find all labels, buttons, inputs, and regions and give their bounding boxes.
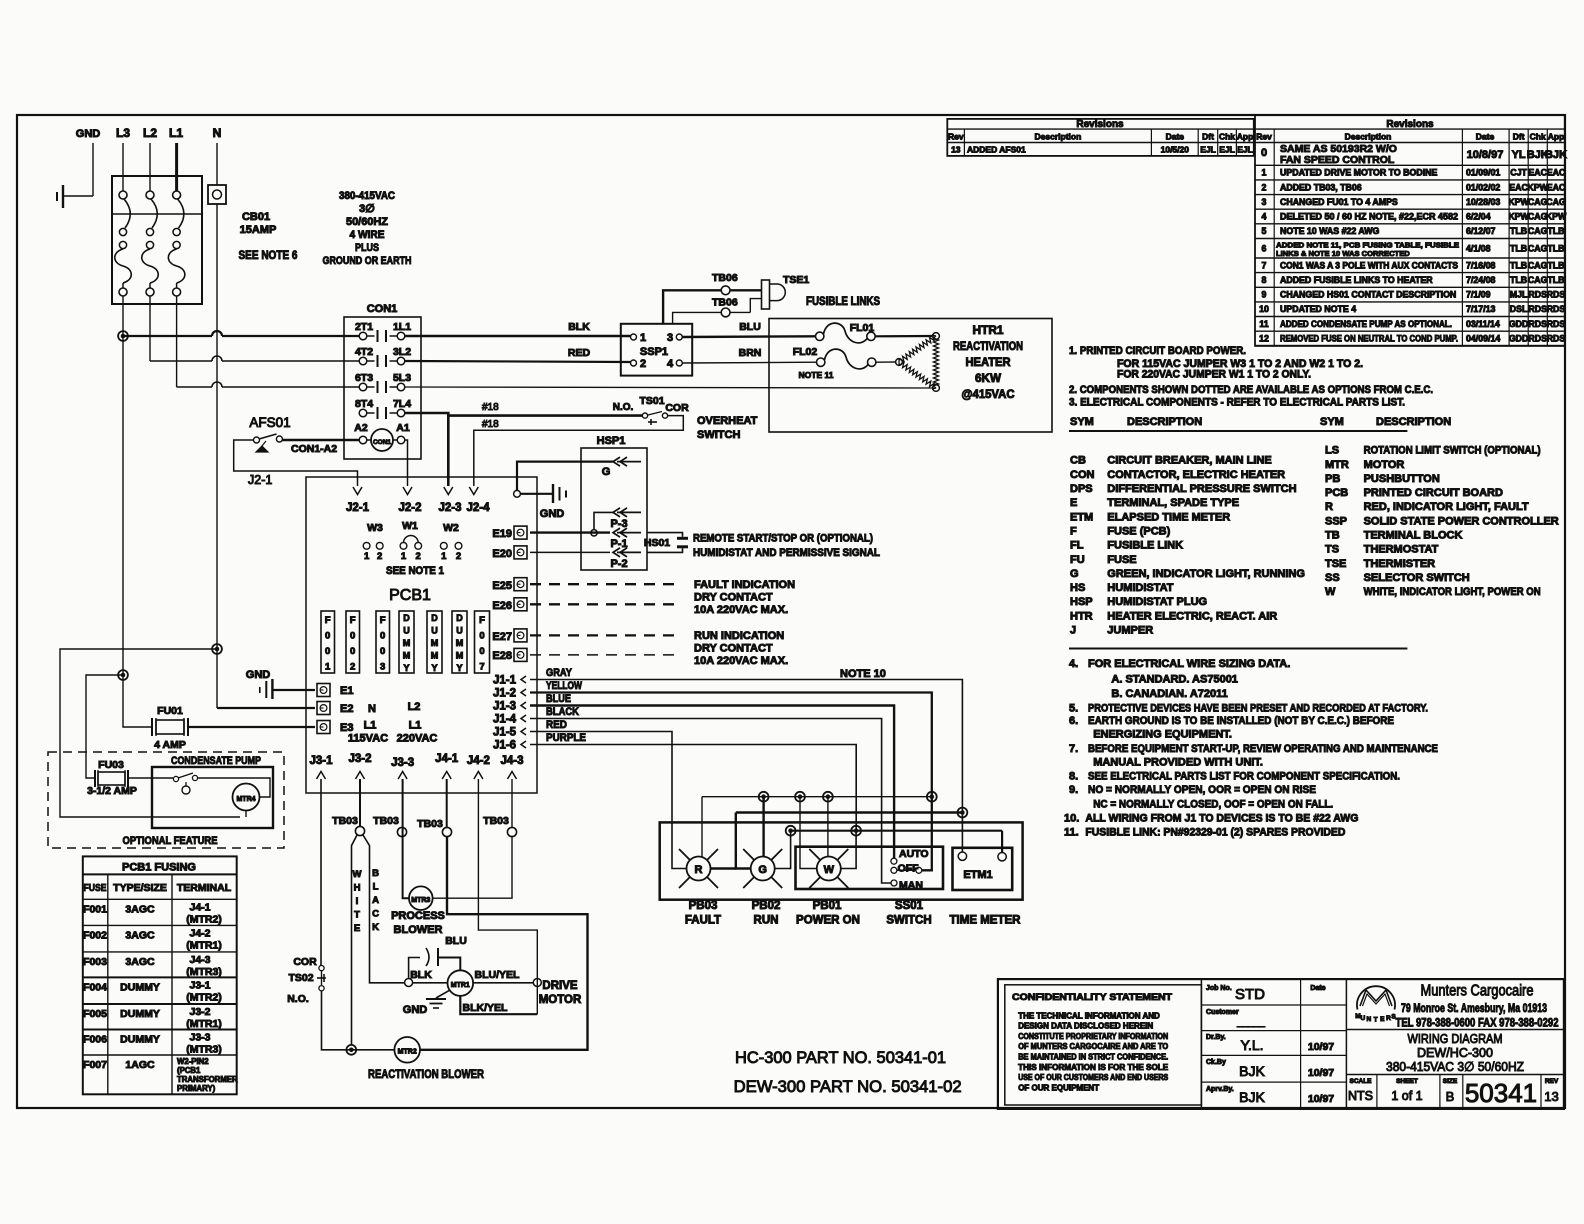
svg-text:DEW/HC-300: DEW/HC-300 — [1417, 1045, 1493, 1060]
svg-text:CONFIDENTIALITY STATEMENT: CONFIDENTIALITY STATEMENT — [1012, 992, 1172, 1003]
svg-text:ETM1: ETM1 — [963, 869, 992, 881]
svg-text:0: 0 — [479, 646, 484, 657]
svg-text:YELLOW: YELLOW — [546, 680, 582, 692]
wire L2 — [149, 143, 151, 191]
svg-text:ADDED CONDENSATE PUMP AS OPTIO: ADDED CONDENSATE PUMP AS OPTIONAL. — [1280, 319, 1452, 329]
svg-text:4: 4 — [1262, 212, 1267, 222]
wire bus to G left — [736, 813, 751, 869]
svg-text:TS: TS — [1325, 544, 1339, 556]
svg-text:KPW: KPW — [1546, 212, 1567, 222]
svg-text:PB01: PB01 — [813, 900, 842, 912]
svg-text:4: 4 — [667, 358, 674, 370]
svg-text:FUSIBLE LINK: PN#92329-01 (2): FUSIBLE LINK: PN#92329-01 (2) SPARES PRO… — [1085, 826, 1345, 838]
svg-text:J1-2: J1-2 — [493, 688, 516, 700]
svg-text:RDS: RDS — [1528, 304, 1547, 314]
svg-text:10/97: 10/97 — [1308, 1093, 1334, 1105]
svg-text:TSE1: TSE1 — [783, 274, 809, 286]
svg-text:NOTE 10 WAS #22 AWG: NOTE 10 WAS #22 AWG — [1280, 226, 1380, 236]
svg-text:GDD: GDD — [1509, 334, 1529, 344]
wire TB03-3 to J4-1 — [446, 779, 448, 828]
svg-text:PCB: PCB — [1325, 487, 1348, 499]
svg-text:F: F — [380, 615, 386, 626]
svg-text:EJL: EJL — [1237, 145, 1253, 155]
junction phase1 — [118, 331, 128, 341]
svg-text:Dr.By.: Dr.By. — [1206, 1034, 1226, 1041]
svg-text:HSP: HSP — [1070, 596, 1093, 608]
svg-text:PRINTED CIRCUIT BOARD: PRINTED CIRCUIT BOARD — [1364, 487, 1503, 499]
svg-text:5L3: 5L3 — [393, 372, 411, 384]
switch AFS01 — [254, 437, 260, 443]
thermostat TS02 — [319, 966, 324, 971]
svg-text:EARTH GROUND IS TO BE INSTALLE: EARTH GROUND IS TO BE INSTALLED (NOT BY … — [1088, 715, 1394, 727]
svg-text:CAG: CAG — [1528, 197, 1548, 207]
wire N — [216, 143, 218, 185]
svg-text:DRIVE: DRIVE — [542, 980, 577, 992]
svg-text:T: T — [354, 910, 360, 921]
svg-text:FL: FL — [1070, 540, 1084, 552]
svg-text:K: K — [372, 922, 379, 933]
wire neutral to condensate — [60, 649, 240, 817]
wire BLACK — [363, 835, 405, 983]
svg-text:U: U — [1360, 1015, 1365, 1022]
junction yellow bus — [927, 792, 937, 802]
ground symbol at power entry — [56, 192, 58, 201]
svg-text:SWITCH: SWITCH — [697, 429, 740, 441]
terminal E28 — [514, 648, 527, 661]
svg-text:L1: L1 — [409, 720, 422, 732]
wire L1 — [175, 143, 178, 191]
svg-text:KPW: KPW — [1508, 212, 1529, 222]
svg-text:J3-1: J3-1 — [189, 979, 210, 991]
solid state power controller SSP1 — [621, 324, 692, 376]
svg-text:SELECTOR SWITCH: SELECTOR SWITCH — [1364, 572, 1470, 584]
svg-text:J2-4: J2-4 — [466, 502, 490, 514]
svg-text:NOTE 11: NOTE 11 — [799, 370, 834, 380]
connector J3/J4 arrows — [317, 772, 326, 780]
svg-text:ETM: ETM — [1070, 511, 1093, 523]
wire E27 dashed — [530, 634, 680, 636]
svg-text:ELAPSED TIME METER: ELAPSED TIME METER — [1107, 511, 1230, 523]
svg-text:PCB1: PCB1 — [389, 587, 431, 604]
wire AFS01 to J2-1 — [234, 440, 358, 486]
svg-text:CJT: CJT — [1510, 168, 1527, 178]
svg-text:AFS01: AFS01 — [249, 415, 290, 430]
svg-text:1: 1 — [640, 332, 646, 344]
svg-text:3. ELECTRICAL COMPONENTS - REF: 3. ELECTRICAL COMPONENTS - REFER TO ELEC… — [1069, 396, 1405, 408]
wire FL01 to delta — [875, 335, 932, 337]
svg-text:A: A — [372, 895, 379, 906]
svg-text:1: 1 — [1262, 168, 1267, 178]
terminal TB03-2 — [397, 827, 406, 836]
elapsed time meter ETM1 — [953, 848, 1013, 890]
svg-text:W: W — [824, 864, 835, 876]
svg-text:PROCESS: PROCESS — [391, 910, 445, 922]
svg-text:10A 220VAC MAX.: 10A 220VAC MAX. — [694, 655, 788, 667]
svg-text:G: G — [602, 466, 611, 478]
svg-text:J3-2: J3-2 — [348, 753, 371, 765]
svg-text:J2-3: J2-3 — [438, 502, 461, 514]
svg-text:CB: CB — [1070, 455, 1086, 467]
svg-text:D: D — [431, 613, 438, 623]
svg-text:REV: REV — [1545, 1078, 1559, 1085]
terminal TB06 lower — [721, 308, 730, 317]
svg-text:1: 1 — [441, 551, 447, 562]
svg-text:TERMINAL: TERMINAL — [177, 882, 232, 894]
svg-text:D: D — [456, 613, 463, 623]
svg-text:2: 2 — [456, 551, 461, 562]
wire J4-2 to drive motor — [478, 779, 537, 1014]
terminal E1 — [317, 684, 330, 697]
svg-text:4 AMP: 4 AMP — [154, 739, 186, 751]
svg-text:MTR4: MTR4 — [236, 796, 255, 803]
svg-text:115VAC: 115VAC — [348, 733, 388, 745]
svg-text:ADDED TB03, TB06: ADDED TB03, TB06 — [1280, 182, 1362, 192]
svg-text:1 of 1: 1 of 1 — [1391, 1089, 1422, 1103]
wire E28 dashed — [530, 654, 680, 656]
svg-text:F001: F001 — [83, 903, 107, 915]
condensate pump box — [152, 767, 273, 828]
svg-text:2: 2 — [640, 358, 646, 370]
svg-text:TLB: TLB — [1547, 260, 1564, 270]
svg-text:5.: 5. — [1069, 702, 1078, 714]
wire 5L3 to heater delta — [405, 387, 933, 388]
optional feature dashed box — [48, 752, 284, 848]
junction WHITE-MTR2 — [346, 1045, 356, 1055]
svg-text:J1-6: J1-6 — [493, 740, 516, 752]
svg-text:RDS: RDS — [1547, 334, 1566, 344]
svg-text:Revisions: Revisions — [1076, 119, 1124, 130]
svg-text:REACTIVATION BLOWER: REACTIVATION BLOWER — [368, 1067, 484, 1081]
svg-text:RUN: RUN — [754, 915, 779, 927]
svg-text:HEATER ELECTRIC, REACT. AIR: HEATER ELECTRIC, REACT. AIR — [1107, 610, 1277, 622]
svg-text:OFF: OFF — [898, 863, 920, 875]
svg-text:EAC: EAC — [1547, 182, 1566, 192]
junction gray bus — [958, 808, 968, 818]
svg-text:RDS: RDS — [1528, 290, 1547, 300]
svg-text:E20: E20 — [492, 548, 512, 560]
svg-text:DESCRIPTION: DESCRIPTION — [1376, 416, 1451, 428]
svg-text:MOTOR: MOTOR — [539, 994, 582, 1006]
svg-text:PCB1 FUSING: PCB1 FUSING — [122, 862, 196, 874]
svg-text:TB03: TB03 — [417, 818, 443, 830]
fuse F007 — [475, 611, 490, 673]
svg-text:SSP: SSP — [1325, 515, 1347, 527]
svg-text:E: E — [1380, 1016, 1385, 1023]
svg-text:UPDATED DRIVE MOTOR TO BODINE: UPDATED DRIVE MOTOR TO BODINE — [1280, 168, 1438, 178]
title block drawing title — [1346, 1029, 1564, 1031]
svg-text:MTR: MTR — [1325, 459, 1349, 471]
svg-text:GND: GND — [540, 508, 565, 520]
svg-text:J2-1: J2-1 — [346, 502, 370, 514]
svg-text:RDS: RDS — [1547, 319, 1566, 329]
svg-text:REMOTE START/STOP OR (OPTIONAL: REMOTE START/STOP OR (OPTIONAL) — [693, 533, 873, 545]
svg-text:POWER ON: POWER ON — [796, 915, 860, 927]
junction FU01 branch — [118, 670, 128, 680]
svg-text:I: I — [356, 896, 359, 907]
svg-text:BLK/YEL: BLK/YEL — [463, 1002, 509, 1014]
svg-text:GND: GND — [403, 1004, 428, 1016]
svg-text:THE TECHNICAL INFORMATION AND: THE TECHNICAL INFORMATION AND — [1018, 1011, 1160, 1020]
svg-text:F003: F003 — [83, 956, 107, 968]
svg-text:GRAY: GRAY — [546, 667, 573, 679]
svg-text:FU03: FU03 — [98, 759, 124, 771]
svg-text:01/09/01: 01/09/01 — [1466, 168, 1500, 178]
svg-text:9.: 9. — [1069, 784, 1078, 796]
svg-text:#18: #18 — [482, 419, 499, 430]
svg-text:0: 0 — [325, 646, 330, 657]
svg-text:3AGC: 3AGC — [125, 903, 155, 915]
svg-text:FU: FU — [1070, 554, 1085, 566]
svg-text:BJK: BJK — [1545, 149, 1567, 161]
terminal E27 — [514, 629, 527, 642]
svg-text:ALL WIRING FROM J1 TO DEVICES: ALL WIRING FROM J1 TO DEVICES IS TO BE #… — [1085, 813, 1358, 825]
svg-text:M: M — [403, 638, 411, 648]
svg-text:1AGC: 1AGC — [125, 1059, 155, 1071]
svg-text:1: 1 — [325, 662, 331, 673]
svg-text:6/12/07: 6/12/07 — [1466, 226, 1495, 236]
svg-text:CAG: CAG — [1528, 243, 1548, 253]
fuse dummy 3 — [452, 611, 467, 673]
svg-text:10/97: 10/97 — [1308, 1067, 1334, 1079]
svg-text:CONDENSATE PUMP: CONDENSATE PUMP — [171, 755, 261, 767]
wire E20 to P-2 — [530, 551, 610, 553]
wire W lamp left — [800, 797, 817, 869]
svg-text:TLB: TLB — [1547, 226, 1564, 236]
svg-text:TERMINAL, SPADE TYPE: TERMINAL, SPADE TYPE — [1107, 497, 1239, 509]
svg-text:G: G — [758, 864, 767, 876]
svg-text:Munters Cargocaire: Munters Cargocaire — [1421, 983, 1534, 1000]
fusible link FL02 — [817, 358, 825, 366]
svg-text:TSE: TSE — [1325, 558, 1346, 570]
svg-text:DRY CONTACT: DRY CONTACT — [694, 643, 773, 655]
svg-text:DRY CONTACT: DRY CONTACT — [694, 592, 773, 604]
heater HTR1 box — [769, 319, 1052, 433]
svg-text:3AGC: 3AGC — [125, 929, 155, 941]
svg-text:L3: L3 — [116, 126, 130, 140]
wire N to E2 — [217, 707, 315, 709]
svg-text:THERMOSTAT: THERMOSTAT — [1364, 544, 1439, 556]
svg-text:SEE NOTE 6: SEE NOTE 6 — [239, 250, 298, 262]
wire TS01 to J2-4 (#18) — [474, 416, 684, 486]
svg-text:RED, INDICATOR LIGHT, FAULT: RED, INDICATOR LIGHT, FAULT — [1364, 501, 1529, 513]
wire BRN SSP1 pin4 to FL02 — [682, 361, 816, 364]
svg-text:BLOWER: BLOWER — [394, 924, 443, 936]
svg-text:10.: 10. — [1064, 813, 1079, 825]
svg-text:YL: YL — [1512, 149, 1526, 161]
svg-text:F004: F004 — [83, 981, 107, 993]
svg-text:BLACK: BLACK — [546, 706, 579, 718]
svg-text:BLU/YEL: BLU/YEL — [475, 969, 521, 981]
svg-text:M: M — [431, 651, 439, 661]
svg-text:N: N — [213, 126, 222, 140]
svg-text:3∅: 3∅ — [359, 203, 375, 215]
wire RED 3L2 to SSP1 pin2 — [405, 361, 631, 362]
svg-text:6/2/04: 6/2/04 — [1466, 212, 1491, 222]
svg-text:0: 0 — [350, 646, 355, 657]
svg-text:10/5/20: 10/5/20 — [1161, 145, 1190, 155]
fuse F002 — [346, 611, 360, 673]
svg-text:LINKS & NOTE 10 WAS CORRECTED: LINKS & NOTE 10 WAS CORRECTED — [1276, 249, 1410, 258]
svg-text:W2: W2 — [443, 522, 459, 534]
wire FU03 to pump switch — [128, 777, 173, 779]
svg-text:CON1: CON1 — [367, 303, 398, 315]
svg-text:MAN: MAN — [899, 880, 923, 892]
thermister TSE1 — [730, 289, 762, 291]
svg-text:EAC: EAC — [1547, 168, 1566, 178]
svg-text:ENERGIZING EQUIPMENT.: ENERGIZING EQUIPMENT. — [1093, 729, 1232, 741]
svg-text:F007: F007 — [83, 1059, 107, 1071]
svg-text:E25: E25 — [492, 580, 512, 592]
svg-text:MTR3: MTR3 — [411, 897, 430, 904]
svg-text:FL02: FL02 — [793, 346, 818, 358]
bus wire lower — [791, 830, 1003, 832]
svg-text:CONTACTOR, ELECTRIC HEATER: CONTACTOR, ELECTRIC HEATER — [1107, 469, 1285, 481]
svg-text:04/09/14: 04/09/14 — [1466, 334, 1500, 344]
svg-text:W: W — [1325, 586, 1336, 598]
wire SSP1 to TB06 lower — [673, 312, 722, 323]
svg-text:E19: E19 — [492, 528, 512, 540]
svg-text:PLUS: PLUS — [355, 242, 379, 254]
title block bottom row — [1346, 1074, 1564, 1076]
svg-text:5: 5 — [1262, 226, 1267, 236]
svg-text:J3-3: J3-3 — [391, 757, 414, 769]
svg-text:1. PRINTED CIRCUIT BOARD POWER: 1. PRINTED CIRCUIT BOARD POWER. — [1069, 345, 1246, 357]
svg-text:SS01: SS01 — [895, 900, 924, 912]
svg-text:NTS: NTS — [1348, 1089, 1373, 1103]
wire GND drop — [92, 143, 94, 196]
svg-text:FUSIBLE LINKS: FUSIBLE LINKS — [806, 296, 880, 308]
svg-text:J1-3: J1-3 — [493, 701, 516, 713]
svg-text:WIRING DIAGRAM: WIRING DIAGRAM — [1408, 1031, 1503, 1046]
svg-text:BE MAINTAINED IN STRICT CONFID: BE MAINTAINED IN STRICT CONFIDENCE. — [1018, 1053, 1168, 1062]
terminal TB03-1 — [355, 826, 364, 835]
svg-text:MJL: MJL — [1510, 290, 1528, 300]
svg-text:Aprv.By.: Aprv.By. — [1206, 1086, 1234, 1093]
svg-text:F: F — [1070, 525, 1077, 537]
svg-text:3: 3 — [1262, 197, 1267, 207]
svg-text:7/16/08: 7/16/08 — [1466, 260, 1495, 270]
circuit breaker CB01 — [112, 176, 202, 304]
svg-text:3AGC: 3AGC — [125, 956, 155, 968]
wire MTR4 return — [245, 811, 247, 818]
svg-text:FAULT: FAULT — [685, 915, 721, 927]
pin P-1 — [613, 528, 620, 537]
fuse F003 — [376, 611, 390, 673]
svg-text:RDS: RDS — [1528, 334, 1547, 344]
svg-text:CAG: CAG — [1528, 212, 1548, 222]
wire G to GND — [517, 462, 613, 491]
ground symbol GND near HSP1 — [520, 493, 553, 495]
svg-text:RDS: RDS — [1528, 319, 1547, 329]
svg-text:OF OUR EQUIPMENT: OF OUR EQUIPMENT — [1018, 1083, 1099, 1092]
svg-text:6: 6 — [1262, 243, 1267, 253]
svg-text:L2: L2 — [143, 126, 157, 140]
title block job/date rows — [1200, 979, 1202, 1109]
svg-text:BLK: BLK — [568, 321, 590, 333]
wire BLK contact to MTR1 — [405, 979, 413, 987]
svg-text:DUMMY: DUMMY — [120, 1008, 160, 1020]
motor MTR1 drive motor — [448, 970, 474, 996]
svg-text:L: L — [373, 882, 379, 893]
wire W right lead — [841, 831, 856, 869]
svg-text:J3-3: J3-3 — [189, 1032, 210, 1044]
terminal E20 — [514, 546, 527, 559]
svg-text:W: W — [353, 869, 362, 880]
svg-text:3: 3 — [380, 662, 385, 673]
svg-text:Date: Date — [1310, 985, 1325, 992]
svg-text:F002: F002 — [83, 929, 107, 941]
svg-text:8T4: 8T4 — [355, 398, 373, 410]
drive motor contact — [533, 979, 541, 987]
svg-text:U: U — [403, 626, 410, 636]
svg-text:TLB: TLB — [1510, 226, 1527, 236]
svg-text:MTR2: MTR2 — [398, 1049, 417, 1056]
svg-text:P-2: P-2 — [610, 558, 627, 570]
svg-text:NC = NORMALLY CLOSED, OOF = OP: NC = NORMALLY CLOSED, OOF = OPEN ON FALL… — [1093, 798, 1333, 810]
svg-text:T: T — [1374, 1017, 1378, 1024]
svg-text:DEW-300 PART NO. 50341-02: DEW-300 PART NO. 50341-02 — [734, 1077, 962, 1096]
svg-text:HTR1: HTR1 — [973, 325, 1005, 337]
svg-text:Rev: Rev — [1256, 132, 1272, 142]
wire phase1 CB01 to CON1 2T1 — [122, 296, 124, 336]
svg-text:FL01: FL01 — [850, 322, 875, 334]
svg-text:M: M — [431, 638, 439, 648]
svg-text:N.O.: N.O. — [287, 993, 309, 1005]
svg-text:SEE NOTE 1: SEE NOTE 1 — [386, 565, 444, 577]
svg-text:J4-3: J4-3 — [500, 755, 523, 767]
svg-text:TS02: TS02 — [288, 972, 313, 984]
svg-text:7/24/08: 7/24/08 — [1466, 275, 1495, 285]
svg-text:CAG: CAG — [1546, 197, 1566, 207]
svg-text:J2-2: J2-2 — [398, 502, 421, 514]
wire J3-3 to MTR3 — [403, 779, 409, 898]
svg-text:Date: Date — [1166, 132, 1185, 142]
svg-text:GND: GND — [246, 669, 271, 681]
svg-text:2T1: 2T1 — [355, 321, 373, 333]
svg-text:THIS INFORMATION IS FOR THE SO: THIS INFORMATION IS FOR THE SOLE — [1018, 1063, 1169, 1072]
svg-text:8.: 8. — [1069, 770, 1078, 782]
svg-text:CIRCUIT BREAKER, MAIN LINE: CIRCUIT BREAKER, MAIN LINE — [1107, 455, 1271, 467]
svg-text:3L2: 3L2 — [393, 346, 411, 358]
junction G top — [759, 792, 769, 802]
svg-text:9: 9 — [1262, 290, 1267, 300]
svg-text:BJK: BJK — [1239, 1089, 1265, 1105]
svg-text:SSP1: SSP1 — [640, 346, 668, 358]
wire E19 to P-1 — [530, 531, 610, 533]
svg-text:U: U — [456, 626, 463, 636]
wire E26 dashed — [530, 603, 680, 605]
wire phase3 CB01 to CON1 6T3 — [176, 296, 178, 387]
svg-text:(MTR2): (MTR2) — [186, 991, 222, 1003]
junction W top — [823, 792, 833, 802]
svg-text:12: 12 — [1259, 334, 1269, 344]
svg-text:N: N — [368, 703, 376, 715]
pin G — [613, 457, 620, 466]
svg-text:MANUAL PROVIDED WITH UNIT.: MANUAL PROVIDED WITH UNIT. — [1093, 756, 1263, 768]
wire J2-3 drop — [447, 416, 450, 486]
svg-text:2: 2 — [377, 551, 382, 562]
svg-text:TB03: TB03 — [332, 815, 358, 827]
svg-text:7L4: 7L4 — [393, 398, 411, 410]
svg-text:GREEN, INDICATOR LIGHT, RUNNIN: GREEN, INDICATOR LIGHT, RUNNING — [1107, 568, 1305, 580]
svg-text:7.: 7. — [1069, 743, 1078, 755]
svg-text:COR: COR — [665, 402, 689, 414]
svg-text:11: 11 — [1259, 319, 1268, 329]
svg-text:RED: RED — [546, 719, 567, 731]
svg-text:8: 8 — [1262, 275, 1267, 285]
neutral terminal — [208, 185, 226, 204]
svg-text:PB: PB — [1325, 473, 1340, 485]
